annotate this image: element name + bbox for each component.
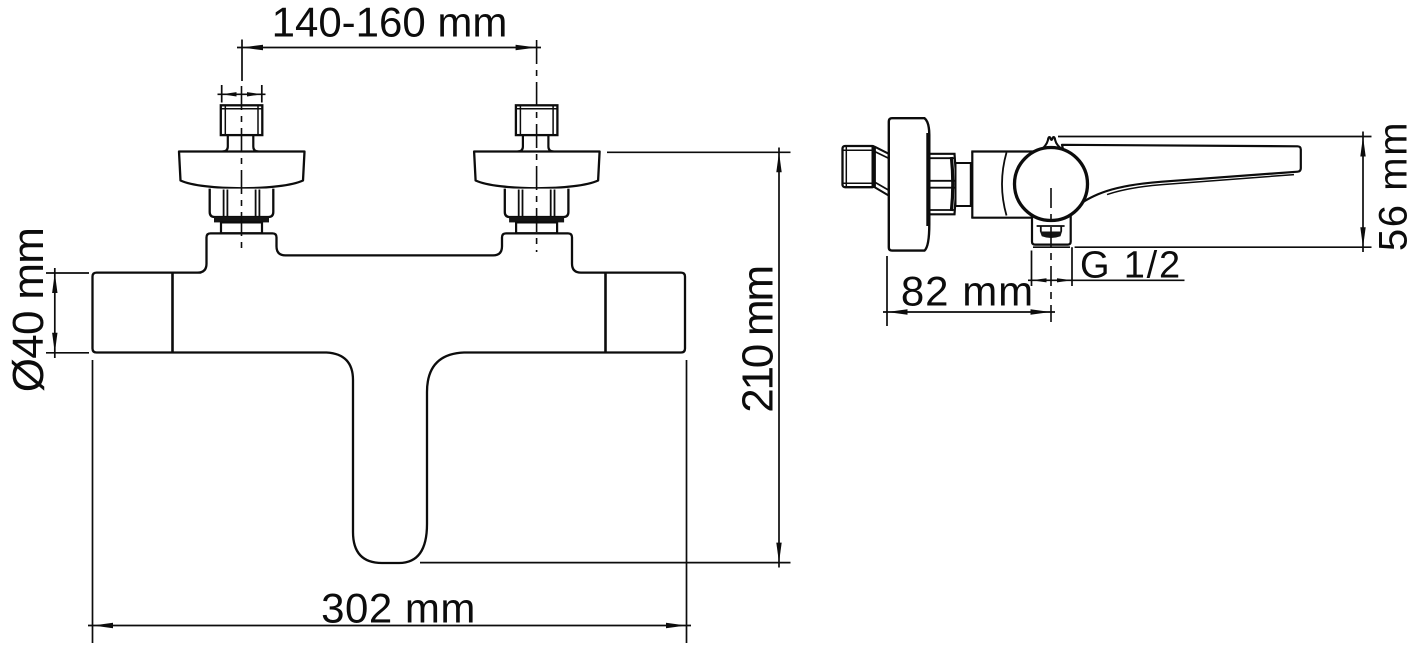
svg-text:G 1/2: G 1/2 <box>1080 245 1182 287</box>
wall flange (escutcheon) <box>179 152 305 189</box>
angled eccentric adapter <box>875 147 889 196</box>
svg-text:302 mm: 302 mm <box>321 585 476 632</box>
dimension 302 mm <box>88 360 691 643</box>
lock washer (dark) <box>214 217 269 222</box>
dimension 56 mm <box>1058 132 1372 253</box>
dimension O40 mm <box>46 268 89 358</box>
handle ball nub <box>1040 137 1063 151</box>
body end ellipse behind handle ball <box>1002 153 1007 216</box>
svg-text:210 mm: 210 mm <box>734 267 783 413</box>
collar <box>221 222 262 233</box>
svg-text:82 mm: 82 mm <box>901 268 1034 315</box>
escutcheon rim line <box>926 133 928 226</box>
mixer body outline with two mounting bosses <box>93 233 686 563</box>
dimension 140-160 mm <box>237 40 541 82</box>
left end-cap tangent line <box>171 274 174 352</box>
nipple stem <box>223 135 259 151</box>
right eccentric connector assembly <box>474 105 599 233</box>
small nipple width dimension <box>218 85 266 103</box>
handle ball (mixer cartridge housing) <box>1015 148 1088 221</box>
wall escutcheon plate <box>889 118 930 250</box>
stem between nut and valve block <box>956 163 971 206</box>
valve housing block <box>971 152 1036 218</box>
handle lower edge shadow line <box>1107 175 1294 195</box>
left eccentric connector assembly <box>179 105 305 233</box>
svg-text:56 mm: 56 mm <box>1372 121 1416 251</box>
hex nut <box>210 189 274 217</box>
hex nut behind escutcheon <box>920 154 956 215</box>
outlet fitting G 1/2 <box>1032 212 1071 247</box>
dimension G 1/2 <box>1028 247 1185 286</box>
dimension 82 mm <box>883 256 1055 326</box>
left connector centerline <box>241 86 243 250</box>
side view centerline <box>1050 188 1052 322</box>
right end-cap tangent line <box>604 274 607 352</box>
svg-text:140-160 mm: 140-160 mm <box>272 0 508 46</box>
svg-text:Ø40 mm: Ø40 mm <box>4 228 53 393</box>
dimension 210 mm <box>420 148 791 568</box>
threaded wall fitting <box>843 146 875 187</box>
threaded nipple <box>221 105 262 135</box>
right connector centerline <box>536 40 538 252</box>
handle lever <box>1062 145 1301 208</box>
